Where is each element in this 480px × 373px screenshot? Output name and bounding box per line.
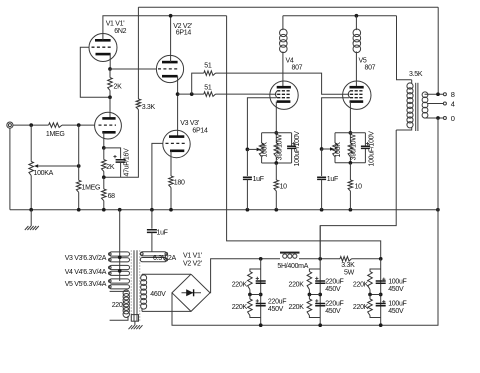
node V5 choke bbox=[355, 14, 359, 18]
wire V1 upper cathode bbox=[109, 54, 111, 69]
svg-text:V3 V3': V3 V3' bbox=[180, 120, 199, 127]
wire V3 grid to ground bbox=[152, 143, 163, 209]
svg-text:220K: 220K bbox=[353, 281, 369, 288]
heater winding V5 6.3V/4A bbox=[109, 279, 129, 283]
node cathode box bottom V5 bbox=[349, 161, 353, 165]
resistor 220K C1 bbox=[370, 269, 381, 272]
wire 3.3K to node C bbox=[352, 258, 381, 260]
wire V5 bias lead bbox=[322, 98, 350, 149]
wire 3.3K to cathode node bbox=[104, 110, 139, 178]
bridge rectifier bbox=[172, 274, 210, 311]
potentiometer 100K V5 bbox=[333, 143, 338, 157]
tap 0 ohm bbox=[425, 117, 444, 119]
tube V4 807 bbox=[270, 81, 298, 109]
resistor 220K A2 bbox=[249, 295, 251, 300]
wire V2 plate to B+ line bbox=[170, 16, 172, 62]
wire 0 tap to PSU ground bbox=[172, 118, 438, 325]
svg-text:450V: 450V bbox=[388, 286, 404, 293]
wiper arm 100KA bbox=[38, 165, 78, 167]
cathode box V5 bbox=[335, 132, 365, 134]
svg-text:390/10W: 390/10W bbox=[351, 134, 358, 161]
svg-text:V1 V1': V1 V1' bbox=[183, 252, 202, 259]
resistor 1MEG grid leak bbox=[78, 125, 80, 180]
resistor 51 upper bbox=[204, 71, 216, 76]
node 51 branch bbox=[190, 92, 194, 96]
node cathode box top bbox=[274, 131, 278, 135]
filter chain B main bbox=[319, 259, 321, 325]
svg-text:100K: 100K bbox=[335, 142, 342, 158]
svg-text:8: 8 bbox=[451, 90, 455, 99]
svg-text:V4: V4 bbox=[286, 57, 294, 64]
node cathode box top V5 bbox=[349, 131, 353, 135]
wire front-end B+ drop bbox=[227, 16, 381, 259]
wire jack sleeve to ground rail bbox=[9, 128, 11, 210]
svg-text:6P14: 6P14 bbox=[192, 128, 208, 135]
svg-text:1uF: 1uF bbox=[327, 176, 338, 183]
capacitor 1uF heater bypass bbox=[151, 210, 153, 229]
input jack bbox=[7, 122, 13, 128]
node input bbox=[29, 123, 33, 127]
svg-text:807: 807 bbox=[365, 64, 376, 71]
junction ground rail bbox=[169, 208, 173, 212]
plate choke V4 bbox=[282, 16, 284, 30]
OPT core bbox=[415, 83, 417, 131]
capacitor 100uF/450V C2 bbox=[376, 304, 386, 306]
svg-text:V5 V5'6.3V/4A: V5 V5'6.3V/4A bbox=[65, 281, 107, 288]
primary 220V winding bbox=[110, 290, 128, 292]
node V2 plate bbox=[169, 14, 173, 18]
junction ground rail bbox=[436, 208, 440, 212]
wire driver out bbox=[178, 93, 204, 95]
svg-text:1uF: 1uF bbox=[253, 176, 264, 183]
tube V1 upper triode 6N2 bbox=[89, 34, 117, 62]
tap 8 ohm bbox=[425, 93, 444, 95]
capacitor 1uF V5 bias bbox=[321, 149, 323, 176]
capacitor 100uF/450V C1 bbox=[376, 281, 386, 283]
cathode box V4 bbox=[262, 132, 292, 134]
resistor 68 bbox=[103, 177, 105, 189]
node cathode bbox=[102, 146, 106, 150]
tap 4 ohm bbox=[428, 103, 444, 105]
wire pot to ground rail bbox=[30, 176, 32, 210]
wire V1 plate to B+ line bbox=[103, 16, 227, 41]
capacitor 220uF/450V B1 bbox=[315, 281, 325, 283]
svg-text:220K: 220K bbox=[289, 281, 305, 288]
resistor 2K SRPP bbox=[108, 78, 113, 91]
capacitor 220uF/450V B2 bbox=[315, 304, 325, 306]
junction ground rail bbox=[102, 208, 106, 212]
junction ground rail bbox=[320, 208, 324, 212]
ground rail bbox=[10, 209, 438, 211]
svg-text:V5: V5 bbox=[359, 57, 367, 64]
junction ground rail bbox=[349, 208, 353, 212]
capacitor 1uF V4 bias bbox=[246, 149, 248, 176]
svg-text:100uF: 100uF bbox=[388, 279, 406, 286]
node grid V1 lower bbox=[77, 123, 81, 127]
resistor 3.3K 5W bbox=[340, 257, 352, 262]
resistor 10 V5 bbox=[348, 180, 353, 191]
resistor 220K A1 bbox=[250, 269, 261, 272]
resistor 51 lower bbox=[204, 92, 216, 97]
wire bridge plus to B+ line bbox=[210, 259, 280, 293]
heater winding V4 6.3V/4A bbox=[109, 265, 129, 269]
filter choke 5H/400mA bbox=[280, 252, 300, 254]
svg-text:450V: 450V bbox=[268, 306, 284, 313]
svg-text:V2 V2': V2 V2' bbox=[183, 261, 202, 268]
resistor 1MEG series bbox=[49, 123, 62, 128]
svg-text:1MEG: 1MEG bbox=[82, 184, 101, 191]
svg-text:47uF/16V: 47uF/16V bbox=[123, 148, 130, 177]
junction ground rail bbox=[29, 208, 33, 212]
svg-text:10: 10 bbox=[280, 183, 288, 190]
resistor 10 V4 bbox=[274, 180, 279, 191]
capacitor 100uF/100V V5 bbox=[361, 146, 370, 148]
wire V4 bias lead bbox=[247, 98, 276, 150]
junction ground rail bbox=[77, 208, 81, 212]
plate choke V5 bbox=[355, 16, 357, 30]
svg-text:V3 V3'6.3V/2A: V3 V3'6.3V/2A bbox=[65, 255, 107, 262]
wire 51 to V4 grid bbox=[216, 93, 262, 95]
svg-text:51: 51 bbox=[204, 85, 212, 92]
resistor 390/10W V4 bbox=[275, 133, 277, 143]
node V5 wiper bbox=[320, 147, 324, 151]
svg-text:220K: 220K bbox=[289, 304, 305, 311]
node filter C top bbox=[379, 257, 383, 261]
wire branch up bbox=[192, 73, 204, 94]
resistor 390/10W V5 bbox=[349, 133, 351, 143]
resistor 220K B2 bbox=[308, 295, 310, 300]
svg-text:180: 180 bbox=[174, 180, 185, 187]
wire jack to grid network bbox=[13, 124, 49, 126]
svg-text:450V: 450V bbox=[325, 286, 341, 293]
node driver out bbox=[176, 92, 180, 96]
HT winding 460V bbox=[142, 273, 191, 275]
node filter A top bbox=[259, 257, 263, 261]
wire to 10 ohm bbox=[275, 163, 277, 180]
ground symbol input bbox=[30, 210, 32, 226]
wire V2 cathode to V3 plate bbox=[177, 76, 179, 136]
wire net B rail bbox=[283, 15, 397, 17]
wire heater center taps to ground bbox=[119, 210, 121, 281]
tube V5 807 bbox=[343, 81, 371, 109]
resistor 2K cathode bbox=[102, 160, 107, 172]
svg-text:100uF: 100uF bbox=[388, 301, 406, 308]
capacitor 47uF/16V bbox=[104, 148, 121, 159]
svg-text:100K: 100K bbox=[262, 142, 269, 158]
wire 1MEG to grid bbox=[62, 124, 95, 126]
capacitor 220uF/450V A1 bbox=[256, 281, 266, 283]
junction ground rail bbox=[246, 208, 250, 212]
wire V1 upper grid return bbox=[80, 47, 110, 97]
ground symbol transformer bbox=[134, 321, 136, 325]
svg-text:51: 51 bbox=[204, 63, 212, 70]
wire V1 lower cathode bbox=[103, 132, 105, 148]
svg-text:68: 68 bbox=[108, 193, 116, 200]
svg-text:390/10W: 390/10W bbox=[277, 134, 284, 161]
svg-text:460V: 460V bbox=[150, 291, 166, 298]
svg-text:807: 807 bbox=[292, 64, 303, 71]
svg-text:V1 V1': V1 V1' bbox=[106, 20, 125, 27]
wire B+ after choke bbox=[299, 258, 340, 260]
svg-text:3.3K: 3.3K bbox=[142, 104, 156, 111]
svg-text:0: 0 bbox=[451, 114, 455, 123]
svg-text:6P14: 6P14 bbox=[176, 30, 192, 37]
junction ground rail bbox=[118, 208, 122, 212]
wire to V1 lower plate bbox=[109, 97, 111, 118]
wire V4 cathode bbox=[275, 102, 277, 133]
wiper arm 100K V5 bbox=[322, 148, 330, 150]
wire input to pot bbox=[30, 125, 32, 161]
svg-text:2K: 2K bbox=[114, 83, 123, 90]
wire NFB right drop to 8-ohm tap bbox=[437, 7, 439, 94]
svg-text:220uF: 220uF bbox=[325, 301, 343, 308]
node V1 cathode out bbox=[108, 67, 112, 71]
wire OPT B+ feed bbox=[320, 130, 396, 259]
node filter B top bbox=[318, 257, 322, 261]
svg-text:220uF: 220uF bbox=[268, 299, 286, 306]
svg-text:6N2: 6N2 bbox=[114, 28, 126, 35]
tube V2 6P14 bbox=[156, 55, 183, 82]
transformer shield box bbox=[131, 315, 138, 322]
output transformer secondary bbox=[422, 92, 428, 98]
wire to 10 ohm V5 bbox=[349, 163, 351, 180]
filter chain C main bbox=[380, 259, 382, 325]
wire top NFB rail bbox=[138, 6, 438, 8]
heater winding V3 6.3V/2A bbox=[109, 252, 129, 256]
wiper arm 100K V4 bbox=[247, 148, 256, 150]
junction ground rail bbox=[274, 208, 278, 212]
wire 51 to V5 grid bbox=[216, 73, 350, 94]
svg-text:3.3K: 3.3K bbox=[341, 262, 355, 269]
svg-text:220uF: 220uF bbox=[325, 279, 343, 286]
svg-text:1uF: 1uF bbox=[157, 230, 168, 237]
svg-text:100uF/100V: 100uF/100V bbox=[294, 131, 301, 167]
node cathode box bottom bbox=[274, 161, 278, 165]
svg-text:2K: 2K bbox=[106, 164, 115, 171]
resistor 3.3K NFB bbox=[136, 99, 141, 110]
svg-text:3.5K: 3.5K bbox=[409, 71, 423, 78]
power transformer core bbox=[133, 250, 135, 321]
svg-text:5W: 5W bbox=[344, 270, 355, 277]
capacitor 100uF/100V V4 bbox=[287, 146, 296, 148]
svg-text:5H/400mA: 5H/400mA bbox=[277, 263, 308, 270]
svg-text:220K: 220K bbox=[232, 281, 248, 288]
svg-text:100KA: 100KA bbox=[34, 170, 54, 177]
filter chain A main bbox=[260, 259, 262, 325]
potentiometer 100KA bbox=[29, 162, 34, 176]
filter chain B bbox=[319, 226, 321, 259]
svg-text:220: 220 bbox=[112, 302, 123, 309]
node SRPP mid bbox=[108, 95, 112, 99]
resistor 180 bbox=[169, 176, 174, 188]
tube V3 6P14 bbox=[163, 130, 190, 157]
potentiometer 100K V4 bbox=[259, 143, 264, 157]
wire V3 cathode bbox=[170, 151, 172, 176]
node cathode bottom bbox=[102, 175, 106, 179]
svg-text:220K: 220K bbox=[353, 304, 369, 311]
junction ground rail bbox=[150, 208, 154, 212]
heater winding 6.3V/2A V1 V2 bbox=[140, 252, 167, 256]
svg-text:1MEG: 1MEG bbox=[46, 131, 65, 138]
wire net B to OPT primary top bbox=[397, 16, 412, 80]
svg-text:100uF/100V: 100uF/100V bbox=[368, 131, 375, 167]
wire V5 cathode bbox=[349, 102, 351, 133]
resistor 220K C2 bbox=[369, 295, 371, 300]
svg-text:220K: 220K bbox=[232, 304, 248, 311]
wire NFB left drop to 3.3K bbox=[137, 7, 139, 99]
wire SRPP out to V2 grid bbox=[110, 68, 157, 70]
svg-text:V4 V4'6.3V/4A: V4 V4'6.3V/4A bbox=[65, 269, 107, 276]
svg-text:4: 4 bbox=[451, 100, 455, 109]
svg-text:450V: 450V bbox=[388, 308, 404, 315]
tube V1 lower triode 6N2 bbox=[95, 112, 122, 139]
capacitor 220uF/450V A2 bbox=[256, 304, 266, 306]
svg-text:10: 10 bbox=[355, 183, 363, 190]
svg-text:450V: 450V bbox=[325, 308, 341, 315]
resistor 220K B1 bbox=[309, 269, 320, 272]
node V4 wiper bbox=[246, 148, 250, 152]
svg-text:6.3V/2A: 6.3V/2A bbox=[153, 255, 176, 262]
